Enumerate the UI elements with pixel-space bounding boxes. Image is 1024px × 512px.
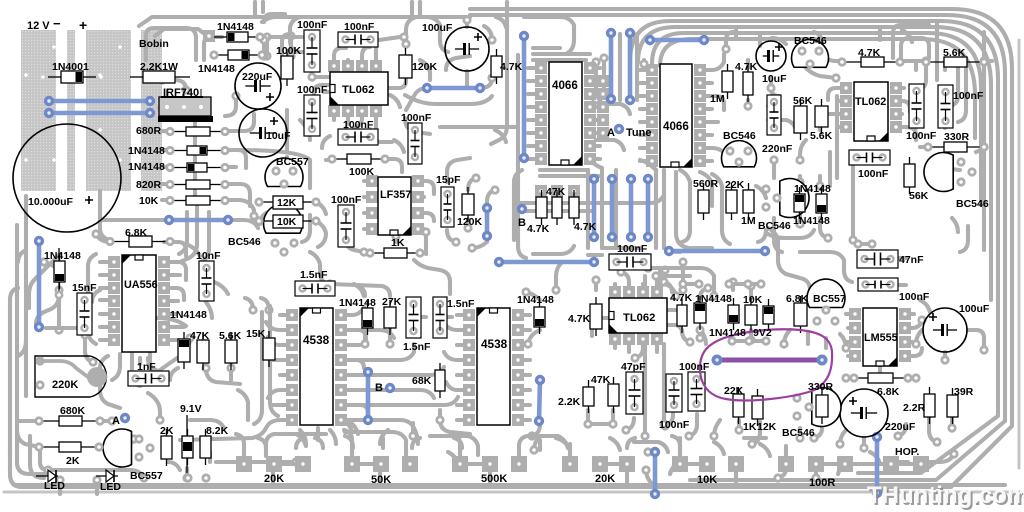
resistor 10K box <box>273 215 303 228</box>
svg-text:4.7K: 4.7K <box>568 313 591 325</box>
node A pad <box>120 413 130 423</box>
svg-text:IRF740: IRF740 <box>163 87 199 99</box>
resistor 330R b <box>821 388 823 395</box>
capacitor C7 220uF <box>840 389 888 437</box>
jumper wire W13 <box>669 249 765 254</box>
svg-text:+: + <box>79 17 87 33</box>
svg-text:A: A <box>607 127 615 139</box>
resistor 22K a <box>731 183 733 190</box>
capacitor 47pF <box>626 372 643 414</box>
capacitor 15pF <box>441 187 454 227</box>
svg-text:6.8K: 6.8K <box>877 386 900 398</box>
capacitor 100nF g <box>909 84 924 128</box>
transistor Q1 BC557 <box>265 158 303 186</box>
IC 4066 B <box>660 64 692 167</box>
resistor 2.2R <box>929 387 931 394</box>
capacitor 100nF k <box>609 254 651 270</box>
wire top inner <box>155 29 206 36</box>
svg-text:4.7K: 4.7K <box>527 223 550 235</box>
jumper wire W15 <box>37 241 42 327</box>
diode D4 1N4148 <box>170 150 187 152</box>
capacitor 1nF <box>128 371 169 386</box>
resistor 15K <box>268 331 270 338</box>
jumper wire W1 <box>49 99 150 104</box>
wire 4066b stubs <box>640 68 650 72</box>
svg-text:2K: 2K <box>66 455 80 467</box>
resistor 4.7K d <box>681 298 683 305</box>
jumper wire W18 <box>653 452 658 494</box>
resistor 680K <box>39 420 59 422</box>
resistor 820R <box>170 184 186 186</box>
svg-text:50K: 50K <box>371 474 391 486</box>
svg-text:B: B <box>518 217 526 229</box>
wire loop region <box>648 268 714 276</box>
svg-text:100nF: 100nF <box>953 90 984 102</box>
svg-text:BC546: BC546 <box>723 130 756 142</box>
capacitor 47nF <box>857 250 898 268</box>
svg-text:100nF: 100nF <box>659 419 690 431</box>
pot 10K pads <box>672 456 688 472</box>
op-amp U2 TL062 <box>328 60 340 72</box>
svg-text:47nF: 47nF <box>899 254 924 266</box>
transistor Q7 BC557 <box>807 279 845 307</box>
resistor 2K a <box>39 446 59 448</box>
resistor 120K b <box>467 187 469 194</box>
capacitor 220nF <box>767 95 781 135</box>
jumper wire W14 <box>499 260 594 265</box>
capacitor 100nF d <box>408 123 422 164</box>
wire misc3 <box>17 419 34 423</box>
svg-text:5.6K: 5.6K <box>943 47 966 59</box>
copper pour 12V rail <box>21 30 56 191</box>
svg-text:68K: 68K <box>412 375 432 387</box>
resistor 10K v <box>750 298 752 305</box>
svg-text:1N4001: 1N4001 <box>52 61 89 73</box>
resistor 47K d <box>202 333 204 340</box>
wire 4066b tail arcs <box>676 172 712 248</box>
svg-text:1N4148: 1N4148 <box>794 183 831 195</box>
svg-text:−: − <box>53 16 61 31</box>
transistor Q2 BC546 <box>264 204 303 233</box>
resistor 1M a <box>727 64 729 71</box>
wire misc2 <box>310 252 320 272</box>
svg-text:4538: 4538 <box>303 333 330 347</box>
wire 4538 area <box>206 368 240 384</box>
jumper wire W3 <box>427 86 480 91</box>
svg-text:1N4148: 1N4148 <box>198 63 235 75</box>
node B pad <box>385 383 395 393</box>
highlight loop <box>700 329 832 400</box>
transistor Q8 BC546 <box>812 388 841 427</box>
svg-text:6.8K: 6.8K <box>786 293 809 305</box>
diode D17 1N4148 <box>367 301 369 308</box>
svg-text:1M: 1M <box>741 215 756 227</box>
svg-text:9V2: 9V2 <box>753 327 772 339</box>
jumper wire W16 <box>366 372 371 420</box>
svg-text:100nF: 100nF <box>617 243 648 255</box>
IC 4066 A <box>549 62 582 165</box>
svg-text:2.2R: 2.2R <box>903 402 926 414</box>
capacitor 100nF j <box>338 129 378 145</box>
diode D3 1N4148 <box>214 54 228 56</box>
transistor Q9 BC557 <box>103 429 131 467</box>
svg-text:12 V: 12 V <box>27 20 50 32</box>
svg-text:4.7K: 4.7K <box>500 61 523 73</box>
svg-text:120K: 120K <box>412 61 438 73</box>
capacitor C1 10000uF <box>13 124 121 232</box>
jumper wire W9 <box>592 179 597 237</box>
resistor 2.2K 1W <box>143 71 175 83</box>
svg-text:UA556: UA556 <box>124 279 158 291</box>
IC 4538 B <box>463 309 475 321</box>
svg-text:BC546: BC546 <box>794 35 827 47</box>
capacitor C4 100uF <box>445 27 489 71</box>
op-amp U4 TL062 <box>840 82 852 94</box>
diode D5 1N4148 <box>170 167 187 169</box>
svg-text:10K: 10K <box>139 195 159 207</box>
svg-text:LED: LED <box>44 480 65 492</box>
trimmer 220K <box>35 356 106 397</box>
zener D8 9.1V <box>187 429 189 436</box>
svg-text:1N4148: 1N4148 <box>170 309 207 321</box>
jumper wire W12 <box>646 179 651 237</box>
wire ua556 fan <box>112 354 120 380</box>
jumper wire W10 <box>610 179 615 237</box>
svg-text:2.2K1W: 2.2K1W <box>140 61 178 73</box>
wire right bottom <box>784 330 790 344</box>
svg-text:100uF: 100uF <box>422 22 453 34</box>
svg-text:15nF: 15nF <box>72 282 97 294</box>
svg-text:4066: 4066 <box>663 120 689 133</box>
LED D15 <box>36 475 58 477</box>
wire bus drops <box>758 33 762 46</box>
svg-text:10uF: 10uF <box>762 73 787 85</box>
resistor 56K a <box>800 99 802 106</box>
capacitor 100nF i <box>338 32 378 47</box>
capacitor 15nF a <box>77 293 92 335</box>
svg-text:220nF: 220nF <box>762 143 793 155</box>
svg-text:100nF: 100nF <box>331 194 362 206</box>
svg-text:330R: 330R <box>944 131 970 143</box>
svg-text:56K: 56K <box>793 95 813 107</box>
svg-text:1N4148: 1N4148 <box>217 21 254 33</box>
svg-text:2K: 2K <box>160 425 174 437</box>
resistor 560R <box>703 183 705 190</box>
resistor 8.2K <box>205 429 207 436</box>
jumper wire W8 <box>650 38 704 43</box>
connector HOP pads <box>883 456 899 472</box>
capacitor 100nF h <box>938 85 953 128</box>
resistor 2K b <box>166 429 168 436</box>
wire midleft verticals <box>100 218 163 222</box>
resistor 1M b <box>748 183 750 190</box>
pot 100R pads <box>778 456 794 472</box>
diode D2 1N4148 <box>248 36 260 38</box>
resistor 47K b <box>556 190 558 197</box>
svg-text:220uF: 220uF <box>242 71 273 83</box>
svg-text:47K: 47K <box>591 374 611 386</box>
wire top right <box>726 32 734 49</box>
resistor 12K box <box>273 196 303 209</box>
resistor 68K <box>439 363 441 370</box>
svg-text:1K: 1K <box>391 237 405 249</box>
svg-text:47pF: 47pF <box>621 361 646 373</box>
jumper wire W4 <box>485 208 490 236</box>
resistor 10K a <box>170 200 186 202</box>
svg-text:1N4148: 1N4148 <box>793 215 830 227</box>
transistor Q5 BC546 <box>924 153 953 192</box>
resistor 4.7K e <box>842 61 861 63</box>
svg-text:1.5nF: 1.5nF <box>447 298 475 310</box>
pad zener leads <box>183 473 192 482</box>
wire center column <box>491 2 507 144</box>
resistor 6.8K c <box>854 377 868 379</box>
wire left diagonal <box>29 255 59 308</box>
svg-text:47K: 47K <box>190 330 210 342</box>
svg-text:120K: 120K <box>457 216 483 228</box>
wire 4066a stubs <box>528 66 538 70</box>
capacitor 100nF b <box>304 95 320 136</box>
resistor 22K b <box>738 387 740 394</box>
wire hop feed <box>852 462 884 466</box>
wire 4066 bus <box>586 170 590 248</box>
pad 4066a inner <box>597 75 609 87</box>
pot 20K b pads <box>562 456 578 472</box>
jumper wire W5 <box>522 36 527 158</box>
wire bottom mid <box>130 338 190 378</box>
resistor 39R <box>952 388 954 395</box>
diode D1 1N4001 <box>61 71 83 83</box>
timer U6 LM555 <box>849 308 861 320</box>
capacitor 100nF m <box>858 278 898 291</box>
pot 500K pads <box>452 456 468 472</box>
capacitor 1.5nF a <box>295 281 335 296</box>
svg-text:1.5nF: 1.5nF <box>403 341 431 353</box>
svg-text:560R: 560R <box>693 178 719 190</box>
svg-text:100nF: 100nF <box>343 119 374 131</box>
svg-text:1N4148: 1N4148 <box>128 145 165 157</box>
wire bus extra 1 <box>652 33 981 205</box>
svg-text:220uF: 220uF <box>885 421 916 433</box>
svg-text:4.7K: 4.7K <box>735 61 758 73</box>
resistor 680R <box>170 131 186 133</box>
svg-text:5.6K: 5.6K <box>219 330 242 342</box>
svg-text:5.6K: 5.6K <box>810 130 833 142</box>
svg-text:22K: 22K <box>724 385 744 397</box>
svg-text:220K: 220K <box>52 379 78 391</box>
jumper wire W7 <box>628 33 633 100</box>
capacitor C2 220uF <box>235 63 281 109</box>
svg-text:6.8K: 6.8K <box>125 227 148 239</box>
jumper wire W2 <box>49 111 150 116</box>
op-amp U5 TL062 <box>609 286 621 298</box>
svg-text:4.7K: 4.7K <box>670 292 693 304</box>
resistor 6.8K a <box>110 241 129 243</box>
wire right mid extra <box>950 66 958 106</box>
wire 47K bus <box>518 201 650 205</box>
wire right lower extra <box>774 218 782 252</box>
svg-text:100R: 100R <box>809 477 835 489</box>
svg-text:BC557: BC557 <box>813 293 846 305</box>
wire ua556 surroundings <box>88 254 96 330</box>
op-amp U3 LF357 <box>366 175 378 187</box>
svg-text:BC557: BC557 <box>276 156 309 168</box>
svg-text:BC546: BC546 <box>782 427 815 439</box>
svg-text:680R: 680R <box>136 125 162 137</box>
svg-text:BC546: BC546 <box>956 198 989 210</box>
svg-text:10uF: 10uF <box>266 130 291 142</box>
wire 4066 lower extra <box>514 170 522 240</box>
via pads loop region <box>643 263 652 272</box>
wire lf357 area <box>302 215 310 242</box>
svg-text:100K: 100K <box>349 166 375 178</box>
svg-text:27K: 27K <box>382 296 402 308</box>
svg-text:LF357: LF357 <box>380 189 411 201</box>
resistor 4.7K a <box>496 49 498 56</box>
capacitor C6 100uF <box>923 308 967 352</box>
resistor 47K e <box>613 377 615 384</box>
svg-text:4066: 4066 <box>552 79 578 92</box>
wire corner bottom-left <box>30 436 44 478</box>
svg-text:15pF: 15pF <box>436 174 461 186</box>
svg-text:100nF: 100nF <box>858 168 889 180</box>
wire tl062c area <box>526 292 540 300</box>
resistor 12K v <box>757 389 759 396</box>
svg-text:1N4148: 1N4148 <box>695 293 732 305</box>
node Tune pad <box>614 124 624 134</box>
wire bottom extra <box>216 460 236 464</box>
capacitor 100nF f <box>688 372 705 411</box>
wire bottom rail <box>15 483 1005 487</box>
resistor 4.7K c <box>595 297 597 304</box>
wire bus top/right/bottom <box>139 17 470 26</box>
svg-text:LED: LED <box>100 481 121 493</box>
diode D7 1N4148 <box>183 332 185 339</box>
svg-text:1N4148: 1N4148 <box>709 327 746 339</box>
resistor 5.6K a <box>926 61 944 63</box>
svg-text:1N4148: 1N4148 <box>517 294 554 306</box>
capacitor C3 10uF <box>239 109 287 157</box>
capacitor 100nF a <box>304 30 320 72</box>
diode D13 1N4148 <box>799 187 801 194</box>
resistor 27K <box>389 300 391 307</box>
pad 47K tops <box>535 185 547 197</box>
resistor 5.6K c <box>230 333 232 340</box>
wire bottom maze <box>266 434 326 456</box>
diode D11 1N4148 <box>733 298 735 305</box>
svg-text:1.5nF: 1.5nF <box>300 269 328 281</box>
resistor 6.8K b <box>800 296 802 303</box>
svg-text:100nF: 100nF <box>344 21 375 33</box>
resistor 100K a <box>286 49 288 56</box>
svg-text:20K: 20K <box>595 473 615 485</box>
svg-text:4.7K: 4.7K <box>858 47 881 59</box>
wire tl062a deep <box>314 85 330 100</box>
pot 50K pads <box>344 456 360 472</box>
via pads <box>262 32 271 41</box>
svg-text:100nF: 100nF <box>297 19 328 31</box>
svg-text:100nF: 100nF <box>401 112 432 124</box>
capacitor 100nF e <box>666 374 682 412</box>
node B2 pad <box>517 204 527 214</box>
svg-text:Bobin: Bobin <box>139 38 169 50</box>
svg-text:100nF: 100nF <box>297 84 328 96</box>
diode D9 1N4148 <box>539 300 541 307</box>
board edge <box>4 491 1020 494</box>
svg-text:12K: 12K <box>757 421 777 433</box>
resistor 2.2K <box>588 380 590 387</box>
wire 4538a left shadow <box>254 312 262 424</box>
resistor 330R a <box>928 146 944 148</box>
svg-text:1M: 1M <box>710 93 725 105</box>
svg-text:100nF: 100nF <box>679 361 710 373</box>
timer U1 UA556 <box>108 256 120 268</box>
wire mid top extra <box>426 17 440 40</box>
svg-text:1N4148: 1N4148 <box>44 250 81 262</box>
svg-text:A: A <box>112 415 120 427</box>
svg-text:4538: 4538 <box>481 337 508 351</box>
svg-text:100K: 100K <box>276 45 302 57</box>
svg-text:10K: 10K <box>743 294 763 306</box>
resistor 100K b <box>332 158 347 160</box>
wire bobin curls <box>146 28 196 60</box>
resistor 1K <box>370 252 384 254</box>
svg-text:2.2K: 2.2K <box>558 396 581 408</box>
capacitor 100nF c <box>338 205 354 247</box>
svg-text:8.2K: 8.2K <box>206 425 229 437</box>
svg-text:820R: 820R <box>136 179 162 191</box>
jumper wire W21 <box>169 218 228 223</box>
svg-text:1N4148: 1N4148 <box>128 161 165 173</box>
resistor 4.7K b <box>747 65 749 72</box>
wire misc pads joins <box>44 295 59 312</box>
svg-text:10.000uF: 10.000uF <box>28 196 74 208</box>
svg-text:10K: 10K <box>697 474 717 486</box>
wire lm555 side pads <box>858 242 872 246</box>
jumper wire W6 <box>609 33 614 99</box>
svg-text:BC546: BC546 <box>758 220 791 232</box>
svg-text:B: B <box>375 382 383 394</box>
wire pad row 284 <box>683 282 700 286</box>
wire ladder <box>193 122 197 200</box>
wire mid-left <box>225 96 236 116</box>
svg-text:20K: 20K <box>264 473 284 485</box>
svg-text:1nF: 1nF <box>137 361 156 373</box>
transistor Q6 BC546 <box>780 178 809 217</box>
svg-text:330R: 330R <box>808 381 834 393</box>
svg-text:Tune: Tune <box>626 127 651 139</box>
svg-text:10K: 10K <box>277 216 297 228</box>
svg-text:LM555: LM555 <box>864 332 898 344</box>
svg-text:1N4148: 1N4148 <box>339 297 376 309</box>
resistor 47K a <box>541 190 543 197</box>
svg-text:15K: 15K <box>246 328 266 340</box>
svg-text:10nF: 10nF <box>196 250 221 262</box>
capacitor 10nF <box>199 261 214 301</box>
pot 20K a pads <box>236 456 252 472</box>
svg-text:47K: 47K <box>546 186 566 198</box>
jumper wire W19 <box>875 437 880 493</box>
IC 4538 A <box>286 309 298 321</box>
svg-text:500K: 500K <box>481 473 507 485</box>
svg-text:TL062: TL062 <box>855 96 886 108</box>
wire pot links <box>274 462 303 466</box>
svg-text:9.1V: 9.1V <box>180 403 202 415</box>
capacitor C5 10uF <box>756 41 786 71</box>
wire between 4066s <box>604 102 620 106</box>
jumper wire W20 purple <box>717 358 822 363</box>
svg-text:100nF: 100nF <box>906 130 937 142</box>
